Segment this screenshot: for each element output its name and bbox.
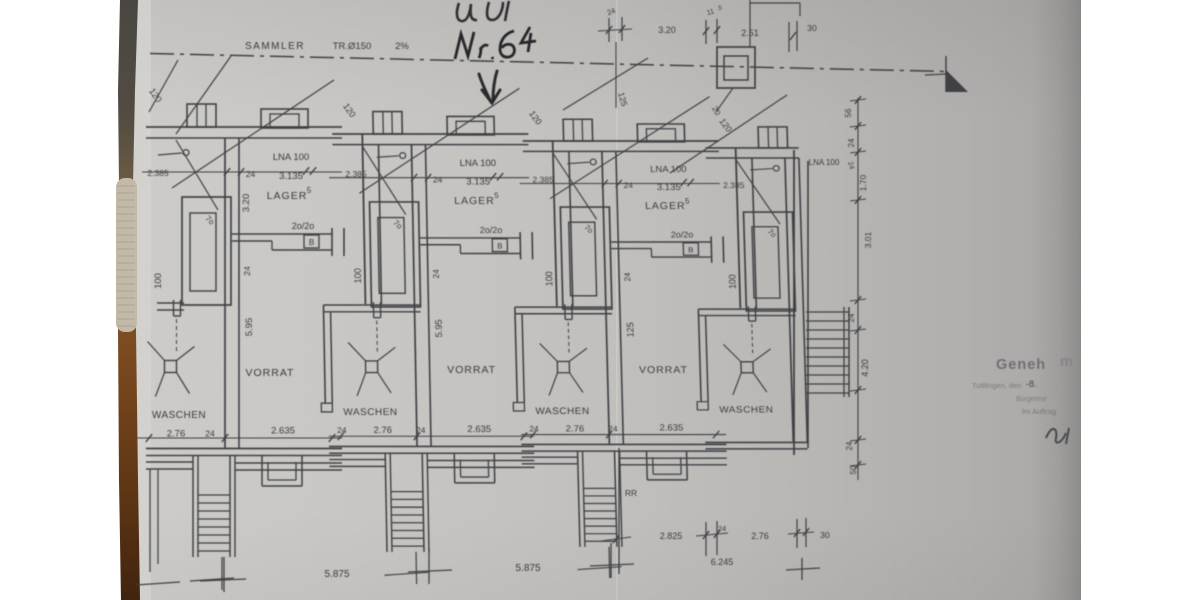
left wall lower extension — [136, 469, 180, 585]
svg-text:24: 24 — [337, 425, 347, 435]
installation shaft — [744, 212, 796, 311]
bottom dim cross 1 — [200, 557, 246, 592]
svg-text:125: 125 — [625, 322, 636, 337]
svg-text:RR: RR — [625, 488, 637, 498]
paper fold line — [616, 0, 618, 600]
photo: wooden table strip bottom-left — [118, 185, 140, 600]
house unit 3 — [506, 97, 755, 578]
svg-text:TR.Ø150: TR.Ø150 — [333, 41, 372, 52]
svg-text:24: 24 — [608, 424, 618, 433]
wall: WASCHEN top wall — [698, 309, 795, 315]
svg-text:LNA 100: LNA 100 — [273, 152, 309, 163]
bottom dim cross 3 — [590, 543, 634, 578]
wall: party wall left — [362, 134, 381, 304]
washing machine cross symbol — [540, 343, 588, 395]
wall: WASCHEN top wall — [515, 307, 612, 314]
wall: between WASCHEN and LAGER/VORRAT — [785, 158, 807, 442]
svg-text:100: 100 — [153, 273, 164, 289]
svg-text:3.20: 3.20 — [241, 194, 252, 213]
flue stub and dashed flue line — [748, 306, 756, 355]
svg-text:SAMMLER: SAMMLER — [245, 41, 305, 52]
svg-text:24: 24 — [718, 524, 726, 533]
B-box symbol — [304, 235, 319, 248]
top dim ticks 24 — [598, 17, 632, 42]
wall: between WASCHEN and LAGER/VORRAT — [225, 138, 239, 448]
vent symbol -o — [750, 166, 779, 171]
wall: WASCHEN left wall — [515, 307, 524, 402]
wall: WASCHEN top wall — [157, 303, 184, 310]
svg-text:LAGER: LAGER — [454, 196, 495, 207]
photo: paper sheet — [130, 0, 1081, 600]
svg-text:2.76: 2.76 — [373, 425, 392, 435]
door jamb — [513, 402, 524, 410]
light well — [647, 452, 688, 480]
pipe diagonal near unit4 — [670, 95, 787, 173]
chimney block A on top wall — [758, 127, 788, 148]
svg-text:2.635: 2.635 — [467, 424, 491, 434]
flue stub and dashed flue line — [373, 302, 381, 354]
paper left edge highlight — [133, 0, 151, 600]
extra pipe diagonal — [563, 58, 648, 110]
svg-text:56: 56 — [844, 108, 853, 117]
stamp Genehmigt — [996, 354, 1073, 373]
svg-text:24: 24 — [847, 313, 856, 322]
flue stub and dashed flue line — [565, 304, 573, 354]
dim chain line y=437 — [521, 431, 726, 438]
svg-text:30: 30 — [820, 530, 830, 540]
chimney block A on top wall — [563, 119, 593, 141]
installation shaft — [560, 207, 612, 309]
upper connector unit1 — [176, 56, 231, 134]
svg-text:Im Auftrag: Im Auftrag — [1022, 407, 1056, 416]
svg-text:50: 50 — [849, 465, 858, 474]
svg-text:3.20: 3.20 — [658, 25, 676, 35]
svg-text:B: B — [309, 238, 314, 247]
vent symbol -o — [377, 153, 406, 159]
svg-text:LAGER: LAGER — [267, 190, 308, 202]
svg-text:VORRAT: VORRAT — [447, 365, 496, 376]
lower terrace wall left of stair — [146, 462, 193, 469]
collector dashed line SAMMLER — [150, 54, 948, 72]
light well — [262, 456, 302, 486]
dim chain line y=172 — [329, 173, 529, 181]
stair steps — [391, 492, 424, 546]
installation shaft — [370, 202, 421, 307]
svg-text:24: 24 — [242, 266, 252, 276]
wall: WASCHEN left wall — [323, 305, 332, 403]
stair bottom cross mark — [384, 552, 429, 584]
dim chain line y=437 — [329, 432, 534, 440]
B-box symbol — [683, 243, 698, 255]
pipe diagonal into shaft — [176, 140, 218, 210]
svg-text:LNA 100: LNA 100 — [809, 158, 840, 167]
pipe run diagonal 120 — [357, 88, 521, 193]
svg-text:WASCHEN: WASCHEN — [535, 406, 589, 417]
door jamb — [321, 403, 332, 412]
svg-text:24: 24 — [416, 425, 426, 435]
svg-text:2.385: 2.385 — [723, 181, 745, 190]
pipe run diagonal 120 — [548, 97, 713, 199]
exterior stairwell rails — [385, 453, 429, 552]
svg-text:WASCHEN: WASCHEN — [343, 407, 397, 418]
svg-text:24: 24 — [431, 269, 441, 279]
svg-text:LNA 100: LNA 100 — [460, 158, 497, 168]
chimney block A on top wall — [187, 104, 216, 127]
wall: WASCHEN left wall — [698, 309, 708, 402]
svg-text:24: 24 — [847, 138, 856, 147]
wall: WASCHEN top wall — [323, 305, 420, 312]
svg-text:5.95: 5.95 — [244, 318, 255, 337]
photo: dark table edge top-left — [118, 0, 138, 185]
leader to 20 label — [716, 88, 733, 112]
svg-text:VORRAT: VORRAT — [639, 365, 688, 376]
dim chain line y=437 — [137, 434, 342, 442]
svg-text:VORRAT: VORRAT — [246, 367, 295, 379]
chimney block B on top wall — [261, 109, 308, 128]
lower terrace wall right of stair — [620, 458, 727, 465]
svg-text:B: B — [497, 242, 503, 251]
signature — [1046, 428, 1069, 444]
svg-text:30: 30 — [807, 23, 817, 33]
wall: between WASCHEN and LAGER/VORRAT — [411, 145, 431, 446]
left corner pipe 120 — [149, 60, 178, 112]
light well — [454, 454, 495, 483]
svg-text:1.70: 1.70 — [858, 174, 868, 191]
wall: bottom exterior wall — [705, 442, 807, 448]
wall: party wall left — [736, 148, 757, 308]
pipe diagonal into shaft — [553, 153, 597, 219]
washing machine cross symbol — [348, 342, 396, 395]
svg-text:3.135: 3.135 — [279, 171, 303, 182]
svg-text:2%: 2% — [395, 41, 409, 52]
dim ticks 30 bottom — [788, 518, 814, 548]
svg-text:LAGER: LAGER — [645, 201, 686, 212]
wall: top exterior wall — [146, 127, 342, 138]
house unit 2 — [315, 88, 561, 584]
wall: bottom exterior wall — [521, 444, 726, 451]
svg-text:24: 24 — [205, 429, 215, 439]
svg-text:2o/2o: 2o/2o — [292, 221, 315, 231]
bottom dim cross 2 — [408, 548, 452, 584]
wall: party wall left — [553, 141, 573, 306]
svg-text:2.635: 2.635 — [659, 423, 683, 433]
stair bottom cross mark — [577, 547, 622, 578]
svg-text:100: 100 — [353, 268, 363, 283]
svg-text:2.825: 2.825 — [660, 531, 683, 541]
right dimension chain — [850, 96, 866, 480]
svg-text:5: 5 — [494, 191, 499, 200]
svg-text:24: 24 — [433, 175, 443, 185]
svg-text:24: 24 — [529, 424, 539, 433]
svg-text:-8.: -8. — [1026, 379, 1037, 389]
pipe diagonal into shaft — [736, 160, 780, 224]
top boundary lines — [750, 0, 800, 47]
right edge darkening — [1032, 0, 1081, 600]
dim chain line y=172 — [520, 179, 720, 187]
lower terrace wall left of stair — [329, 460, 385, 467]
bottom dim cross 4 — [786, 558, 820, 580]
chimney square on collector — [717, 47, 755, 88]
svg-text:5: 5 — [307, 186, 312, 195]
svg-text:5.875: 5.875 — [515, 563, 540, 574]
chimney block B on top wall — [637, 124, 684, 142]
dim tick 30 — [789, 21, 797, 52]
vent symbol -o — [567, 159, 596, 165]
svg-text:100: 100 — [544, 271, 555, 286]
pipe run diagonal 120 — [172, 80, 334, 188]
paper grain — [130, 0, 1081, 600]
svg-text:B: B — [688, 246, 694, 255]
chimney block A on top wall — [373, 112, 402, 134]
opening bracket under LAGER — [420, 232, 533, 259]
svg-text:2.76: 2.76 — [751, 531, 769, 541]
stair steps — [583, 488, 616, 541]
svg-text:2.635: 2.635 — [271, 426, 295, 437]
exterior stairwell rails — [578, 451, 622, 547]
wall: top exterior wall — [706, 148, 799, 158]
svg-text:100: 100 — [727, 274, 738, 289]
lower terrace wall right of stair — [427, 461, 534, 468]
svg-text:24: 24 — [246, 169, 256, 179]
svg-text:2.385: 2.385 — [147, 168, 169, 178]
wall: top exterior wall — [332, 134, 528, 145]
svg-text:Tuttlingen, den: Tuttlingen, den — [972, 381, 1021, 390]
wall: between WASCHEN and LAGER/VORRAT — [602, 151, 623, 444]
section flag symbol — [925, 56, 968, 92]
svg-text:WASCHEN: WASCHEN — [152, 410, 206, 421]
opening bracket under LAGER — [232, 228, 344, 256]
svg-text:WASCHEN: WASCHEN — [719, 405, 773, 416]
svg-text:4.20: 4.20 — [860, 359, 870, 377]
exterior stairwell rails — [193, 455, 235, 557]
svg-text:5.875: 5.875 — [324, 569, 349, 580]
label SAMMLER TR.0150 2% — [245, 41, 409, 52]
flue stub and dashed flue line — [174, 300, 181, 353]
svg-text:Geneh: Geneh — [996, 357, 1046, 373]
svg-text:Bürgerme: Bürgerme — [1016, 396, 1047, 403]
svg-text:24: 24 — [845, 441, 854, 450]
door jamb — [697, 402, 708, 410]
house unit 1 — [137, 80, 367, 590]
right side stair — [806, 307, 849, 397]
vertical ref line — [615, 42, 617, 108]
washing machine cross symbol — [148, 342, 195, 397]
opening bracket under LAGER — [611, 236, 724, 262]
B-box symbol — [492, 239, 507, 252]
svg-text:2o/2o: 2o/2o — [671, 230, 694, 240]
wall: right exterior wall — [794, 150, 808, 455]
svg-text:5: 5 — [685, 196, 690, 205]
dim ticks 115 — [703, 19, 720, 44]
svg-text:3.01: 3.01 — [863, 231, 873, 248]
svg-text:24: 24 — [623, 181, 633, 190]
chimney block B on top wall — [447, 116, 494, 134]
pipe diagonal into shaft — [363, 147, 406, 215]
lower terrace wall right of stair — [235, 463, 342, 470]
wall: bottom exterior wall — [329, 446, 534, 453]
handwritten arrow — [479, 71, 500, 103]
washing machine cross symbol — [723, 344, 771, 394]
right dim labels — [844, 108, 873, 474]
stair bottom cross mark — [190, 557, 234, 590]
pale ribbed object on table — [116, 178, 137, 332]
dim ticks 24 bottom — [696, 521, 728, 556]
wall: bottom exterior wall — [146, 449, 342, 456]
svg-text:2o/2o: 2o/2o — [480, 225, 503, 235]
svg-text:6.245: 6.245 — [711, 557, 734, 567]
installation shaft — [182, 197, 231, 305]
wall: top exterior wall — [523, 141, 719, 151]
lower terrace wall left of stair — [522, 457, 578, 464]
svg-text:m: m — [1060, 354, 1073, 370]
house unit 4 — [689, 127, 807, 449]
svg-text:2.76: 2.76 — [566, 424, 585, 434]
svg-text:5.95: 5.95 — [434, 319, 444, 337]
handwritten note ULG (cut) — [457, 1, 509, 21]
handwritten Nr. 64 — [455, 27, 536, 59]
vent symbol -o — [158, 150, 189, 156]
svg-text:24: 24 — [623, 272, 632, 281]
stair steps — [198, 495, 230, 551]
dim chain line y=172 — [142, 167, 342, 176]
svg-text:LNA 100: LNA 100 — [650, 164, 687, 174]
wall below RR — [601, 448, 631, 574]
